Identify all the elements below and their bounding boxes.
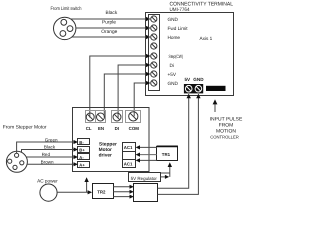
svg-text:Black: Black: [44, 145, 56, 150]
wire AC to TR2: [57, 190, 92, 194]
svg-text:UMI-7764: UMI-7764: [170, 7, 190, 13]
AC power source: [40, 184, 57, 201]
motor terminal A-: [78, 154, 90, 161]
input pulse arrow: [213, 99, 218, 112]
input pulse caption: [210, 116, 243, 139]
wire TR1 to AC1 upper: [136, 145, 157, 149]
AC1 stack: [123, 143, 136, 168]
svg-text:COM: COM: [129, 126, 140, 131]
wire regulator label link: [161, 173, 170, 179]
svg-text:TR1: TR1: [162, 152, 171, 157]
svg-text:AC1: AC1: [124, 162, 133, 167]
svg-text:A+: A+: [79, 163, 85, 168]
wire to TR1: [168, 162, 172, 177]
screw row7: [151, 71, 157, 77]
svg-text:5V: 5V: [185, 77, 192, 82]
wire TR2 out1: [113, 185, 134, 189]
svg-text:Motor: Motor: [99, 147, 112, 153]
transformer TR1: [157, 146, 178, 160]
svg-text:Red: Red: [42, 152, 51, 157]
svg-text:driver: driver: [99, 153, 112, 159]
motor terminal A+: [78, 162, 90, 168]
driver screw COM: [126, 111, 141, 123]
stepper motor driver box: [73, 108, 150, 172]
GND bottom screw: [194, 84, 204, 93]
wire Green motor: [17, 137, 78, 153]
motor pin 3: [20, 161, 24, 165]
wire TR1 to AC1 lower: [136, 158, 157, 162]
screw row4: [151, 43, 157, 49]
driver name text: [99, 141, 117, 158]
svg-text:Green: Green: [45, 137, 58, 142]
stepper motor connector P2: [6, 151, 27, 172]
svg-text:Di: Di: [170, 63, 174, 68]
screw row6: [151, 62, 157, 68]
screw row1: [151, 16, 157, 22]
motor terminal B+: [78, 147, 90, 153]
wire AC branch to driver: [84, 177, 88, 192]
motion controller connector: [206, 86, 226, 91]
svg-text:AC power: AC power: [37, 178, 58, 183]
5V regulator box U2: [134, 184, 158, 202]
svg-text:Axis 1: Axis 1: [200, 36, 213, 41]
transformer TR2: [93, 184, 114, 199]
terminal row labels: [168, 17, 189, 86]
svg-text:EN: EN: [98, 126, 104, 131]
screw row5: [151, 53, 157, 59]
screw row2: [151, 25, 157, 31]
connectivity terminal title: [170, 2, 234, 13]
svg-text:TR2: TR2: [97, 189, 106, 194]
wire TR2 out3: [113, 195, 134, 199]
5V GND bottom labels: [185, 77, 205, 82]
motor pin 2: [8, 159, 12, 163]
svg-text:Fwd Limit: Fwd Limit: [168, 26, 189, 31]
svg-text:Step(CW): Step(CW): [169, 54, 184, 59]
wire Black motor: [22, 145, 79, 153]
terminal block UMI-7764: [146, 13, 234, 96]
svg-text:GND: GND: [168, 17, 179, 22]
screw row8: [151, 80, 157, 86]
wire Red motor: [26, 152, 78, 159]
svg-text:CL: CL: [86, 126, 92, 131]
svg-text:CONTROLLER: CONTROLLER: [210, 135, 239, 140]
terminal screw strip: [149, 15, 160, 91]
svg-text:From Limit switch: From Limit switch: [51, 6, 82, 12]
pin 3: [60, 31, 66, 37]
screw row3: [151, 34, 157, 40]
driver screw DI: [112, 111, 123, 123]
wire TR1 to AC1 middle: [136, 153, 157, 157]
svg-text:B+: B+: [79, 147, 85, 152]
pin 2: [67, 26, 73, 32]
driver screw EN: [96, 111, 106, 123]
wire Orange limit: [72, 29, 151, 39]
motor pin 1: [15, 153, 19, 157]
wire Di to DI: [118, 63, 150, 118]
svg-text:AC1: AC1: [124, 145, 133, 150]
driver screw CL: [86, 111, 96, 123]
pin 1: [61, 19, 67, 25]
svg-text:From Stepper Motor: From Stepper Motor: [3, 125, 47, 131]
svg-text:MOTION: MOTION: [216, 128, 236, 134]
svg-text:GND: GND: [168, 81, 179, 86]
wire Purple limit: [76, 19, 151, 30]
limit switch connector P1: [53, 17, 75, 39]
svg-text:GND: GND: [193, 77, 204, 82]
svg-text:DI: DI: [115, 126, 119, 131]
wire Black limit: [71, 10, 151, 21]
svg-text:Orange: Orange: [101, 29, 117, 35]
motor terminal B-: [78, 139, 90, 145]
wire Brown motor: [27, 160, 78, 167]
wire TR2 out2: [113, 190, 134, 194]
svg-text:Purple: Purple: [102, 19, 116, 25]
wire regulator GND to terminal: [158, 94, 201, 195]
svg-text:B-: B-: [79, 140, 84, 145]
wire Step(CW) to CL: [90, 54, 151, 118]
driver screw labels: [86, 126, 139, 131]
svg-text:Stepper: Stepper: [99, 141, 117, 147]
wire regulator 5V to terminal: [158, 94, 191, 189]
wire GND to COM: [134, 81, 150, 117]
5V regulator label: [129, 173, 161, 182]
svg-text:5V Regulator: 5V Regulator: [131, 176, 158, 181]
svg-text:Brown: Brown: [41, 160, 54, 165]
svg-text:+5V: +5V: [168, 72, 177, 77]
svg-text:Black: Black: [106, 10, 118, 16]
svg-text:Home: Home: [168, 35, 181, 40]
motor pin 4: [13, 165, 17, 169]
wire +5V to EN: [104, 72, 150, 118]
svg-text:A-: A-: [79, 155, 84, 160]
5V bottom screw: [184, 84, 194, 93]
